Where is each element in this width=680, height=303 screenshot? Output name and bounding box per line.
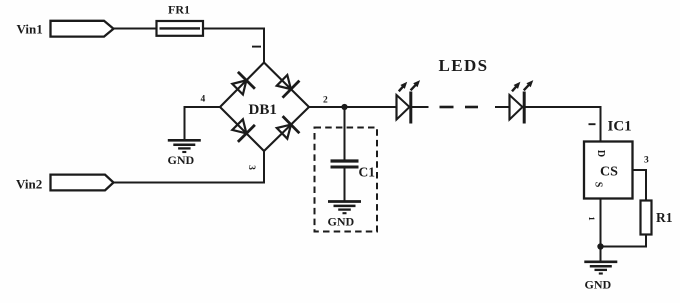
- wire DB1 pin2 to LED1: [308, 106, 397, 108]
- pin 2 (IC1 top): [589, 123, 596, 125]
- dashed enclosure around C1: [315, 128, 378, 232]
- svg-text:FR1: FR1: [168, 3, 190, 17]
- wire DB1 pin3 to Vin2: [263, 150, 265, 183]
- pin 1 (DB1 top): [252, 46, 261, 48]
- svg-text:DB1: DB1: [249, 102, 277, 118]
- port Vin1: [51, 21, 114, 37]
- svg-text:S: S: [593, 182, 604, 188]
- svg-text:3: 3: [644, 156, 649, 166]
- svg-text:D: D: [595, 150, 606, 157]
- diode DB1 top-left: [232, 80, 246, 94]
- wire R1 bottom: [645, 235, 647, 248]
- svg-text:Vin1: Vin1: [17, 22, 43, 37]
- wire C1 to ground: [344, 169, 346, 201]
- dashed wire between LEDs: [440, 106, 454, 109]
- wire LED2 to IC1: [524, 106, 601, 108]
- wire into LED2: [495, 106, 510, 108]
- ground (under C1): [328, 200, 361, 203]
- svg-text:4: 4: [201, 95, 206, 105]
- wire IC1 pin1 to junction: [600, 199, 602, 247]
- diode DB1 bottom-right: [277, 125, 291, 139]
- wire LED1 out: [411, 106, 429, 108]
- svg-text:2: 2: [323, 96, 328, 106]
- svg-text:R1: R1: [656, 210, 673, 225]
- wire DB1 pin4 to ground: [184, 106, 222, 108]
- svg-text:IC1: IC1: [608, 119, 632, 135]
- LED D1 arrows: [399, 85, 404, 91]
- LED D2 arrows: [512, 85, 517, 91]
- ground (left): [168, 139, 201, 142]
- bridge rectifier DB1 outline: [220, 63, 309, 152]
- svg-text:GND: GND: [328, 215, 355, 229]
- svg-text:LEDS: LEDS: [439, 56, 489, 75]
- svg-text:GND: GND: [585, 278, 612, 292]
- fuse FR1: [157, 21, 204, 36]
- svg-text:C1: C1: [359, 165, 376, 180]
- LED D1: [395, 95, 397, 121]
- svg-text:Vin2: Vin2: [16, 177, 42, 192]
- wire junction to ground: [600, 247, 602, 261]
- wire junction to C1: [344, 107, 346, 160]
- IC U1 body: [584, 142, 633, 199]
- capacitor C1: [331, 159, 359, 162]
- wire Vin1 to FR1: [114, 28, 158, 30]
- diode DB1 bottom-left: [232, 119, 246, 133]
- svg-text:1: 1: [587, 216, 597, 220]
- svg-text:3: 3: [246, 165, 256, 170]
- resistor R1: [641, 201, 652, 235]
- ground (right): [584, 260, 617, 263]
- svg-text:GND: GND: [168, 153, 195, 167]
- wire IC1 pin3 to R1: [633, 169, 648, 171]
- svg-text:CS: CS: [600, 165, 618, 180]
- wire FR1 to bridge top: [203, 28, 265, 30]
- diode DB1 top-right: [277, 75, 291, 89]
- port Vin2: [51, 175, 114, 191]
- junction node at IC1 source: [597, 243, 603, 249]
- LED D2: [508, 95, 510, 121]
- junction node at C1: [341, 104, 347, 110]
